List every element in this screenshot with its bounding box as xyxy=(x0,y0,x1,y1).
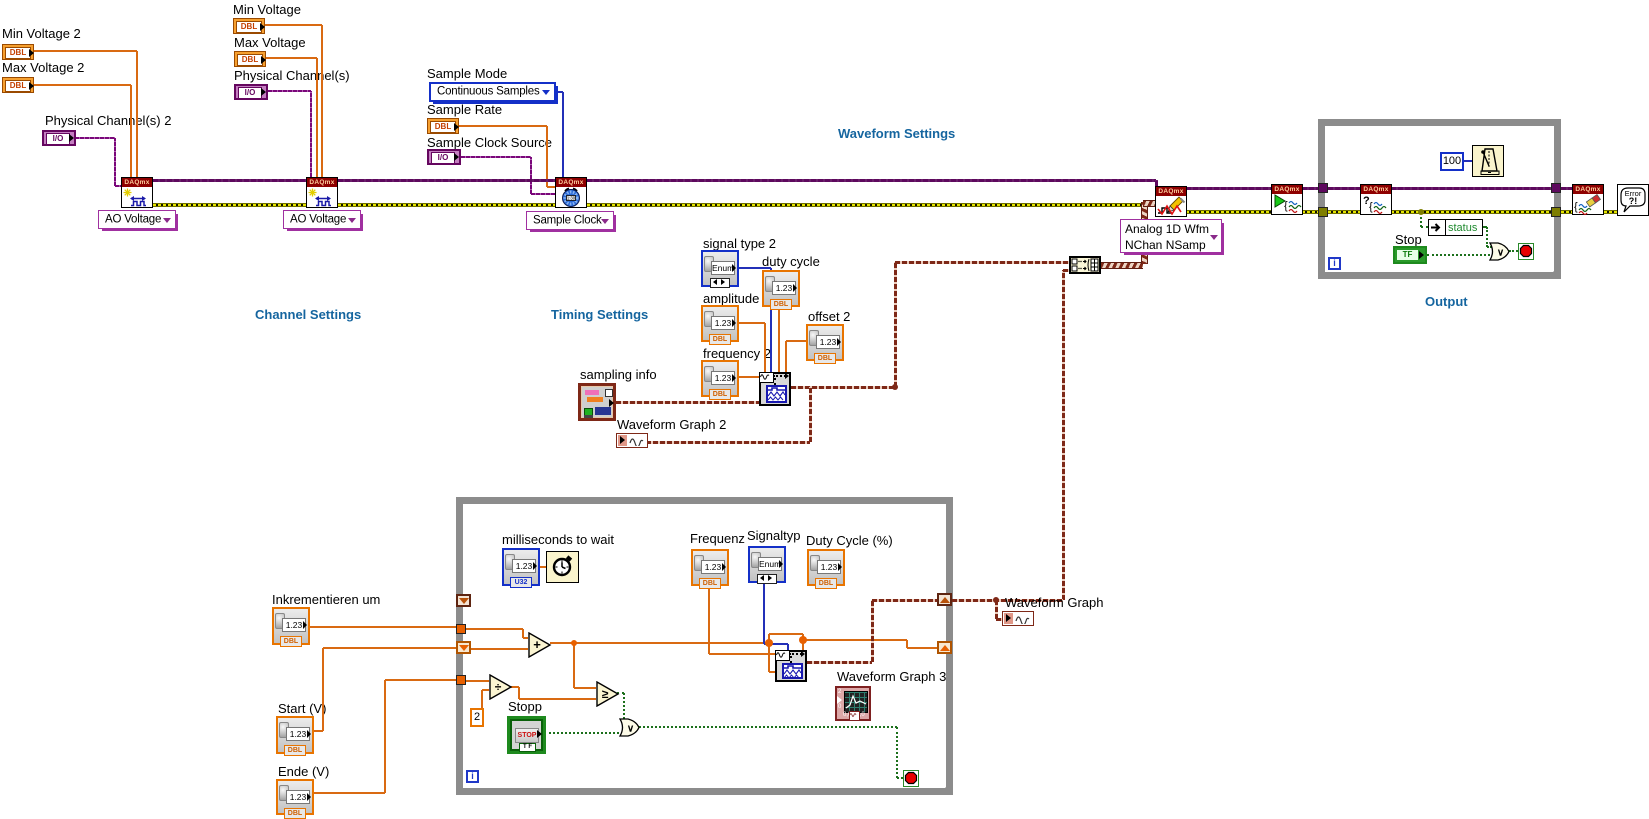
wire Sample Clock Source into node3 xyxy=(531,193,555,195)
terminal Waveform Graph 3 icon xyxy=(835,686,871,721)
wire into unbundle xyxy=(1421,226,1428,228)
wire status out xyxy=(1483,226,1487,228)
node DAQmx Write xyxy=(1155,186,1187,217)
control duty cycle xyxy=(762,270,800,307)
wire greater down to or xyxy=(623,693,625,719)
node DAQmx Is Task Done xyxy=(1360,184,1392,215)
wire error down to unbundle xyxy=(1420,212,1422,227)
wire fan down left xyxy=(768,643,770,672)
label Ende (V) xyxy=(278,764,329,779)
wire or to loop condition xyxy=(1509,250,1518,252)
label Physical Channel(s) xyxy=(234,68,350,83)
svg-text:+: + xyxy=(533,637,541,652)
node Add xyxy=(528,632,552,658)
selector AO Voltage 2 xyxy=(283,210,361,229)
wire sampling info to generator xyxy=(616,401,759,404)
wire Min Voltage 2 to node1 horizontal xyxy=(34,50,137,52)
wire tunnel to add top xyxy=(465,628,523,630)
wire duty cycle vertical xyxy=(778,306,780,372)
control Ende (V) xyxy=(276,779,314,815)
label Sample Mode xyxy=(427,66,507,81)
wire task rail inside loop right xyxy=(1391,187,1551,190)
tunnel task wire left xyxy=(1318,183,1328,193)
wire generator 1 output to build array xyxy=(895,261,1069,264)
label Start (V) xyxy=(278,701,326,716)
wire Start V to shift register xyxy=(323,647,456,649)
control Sample Mode ring Continuous Samples xyxy=(429,82,556,102)
wire divide down xyxy=(518,687,520,699)
terminal loop condition main loop xyxy=(903,770,919,787)
junction waveform at generator 1 output xyxy=(892,384,898,390)
wire or output down xyxy=(896,727,898,778)
label Stop xyxy=(1395,232,1422,247)
svg-text:≥: ≥ xyxy=(602,687,609,701)
constant 2 xyxy=(470,708,484,727)
wire Ende V out xyxy=(314,792,385,794)
wire Signaltyp into generator xyxy=(787,644,789,650)
control frequency 2 xyxy=(701,360,739,397)
wire into build array input 2 xyxy=(1063,269,1069,272)
label Physical Channel(s) 2 xyxy=(45,113,171,128)
node Basic Function Generator 1 xyxy=(759,372,791,406)
svg-text:{: { xyxy=(1284,200,1288,212)
while loop Output frame xyxy=(1318,119,1561,279)
junction add output xyxy=(571,640,577,646)
label Min Voltage 2 xyxy=(2,26,81,41)
wire task rail node1 to node2 xyxy=(153,179,306,182)
wire generator 2 to shift register xyxy=(872,599,937,602)
label Waveform Graph 3 xyxy=(837,669,946,684)
control Max Voltage DBL terminal xyxy=(234,51,266,67)
wire Signaltyp east xyxy=(764,643,788,645)
control Max Voltage 2 DBL terminal xyxy=(2,77,34,93)
wire fan up xyxy=(768,634,770,643)
wire into greater top xyxy=(574,687,596,689)
label Waveform Graph xyxy=(1005,595,1104,610)
wire Physical Channel(s) horizontal xyxy=(268,90,311,92)
wire Physical Channel(s) 2 into node1 xyxy=(115,185,121,187)
wire Sample Mode vertical xyxy=(562,92,564,177)
wire or output east xyxy=(639,726,897,728)
selector Analog 1D Wfm NChan NSamp xyxy=(1120,219,1222,253)
label Frequenz xyxy=(690,531,745,546)
wire offset 2 horizontal xyxy=(786,340,806,342)
wire Sample Mode horizontal xyxy=(556,91,563,93)
control Start (V) xyxy=(276,716,314,754)
wire generator 1 output up xyxy=(894,262,897,387)
wire Min Voltage vertical xyxy=(321,25,323,177)
label Sample Clock Source xyxy=(427,135,552,150)
section label Waveform Settings xyxy=(838,126,955,141)
node Wait ms metronome xyxy=(1472,145,1504,177)
wire 100 to wait xyxy=(1464,160,1472,162)
wire add output down to greater xyxy=(573,643,575,688)
tunnel error wire right xyxy=(1551,207,1561,217)
label offset 2 xyxy=(808,309,850,324)
wire task rail inside loop left xyxy=(1328,187,1360,190)
wire amplitude 2 horizontal xyxy=(739,322,765,324)
wire into add top xyxy=(523,637,528,639)
wire Physical Channel(s) vertical xyxy=(310,91,312,177)
wire signal type 2 horizontal xyxy=(739,267,771,269)
node Greater Or Equal xyxy=(596,681,620,707)
wire Inkrementieren um to tunnel xyxy=(310,626,456,628)
junction fan 1 xyxy=(765,639,773,647)
junction fan 2 xyxy=(799,636,807,644)
node Basic Function Generator 2 xyxy=(775,650,807,682)
wire Max Voltage horizontal xyxy=(266,57,317,59)
wire constant 2 into divide xyxy=(482,689,489,691)
wire task rail start to loop tunnel xyxy=(1302,187,1318,190)
wire Start V out xyxy=(314,730,323,732)
control amplitude 2 xyxy=(701,305,739,342)
svg-text:÷: ÷ xyxy=(495,680,502,694)
label Duty Cycle (%) xyxy=(806,533,893,548)
node Simple Error Handler xyxy=(1617,184,1649,216)
wire Ende tunnel to divide xyxy=(465,680,489,682)
wire Stop to or gate xyxy=(1427,254,1490,256)
shift register waveform left xyxy=(456,594,471,607)
label sampling info xyxy=(580,367,657,382)
terminal Waveform Graph xyxy=(1002,611,1034,626)
wire Start V up xyxy=(322,648,324,731)
wire jog to add top xyxy=(522,629,524,638)
wire signal type 2 vertical xyxy=(770,268,772,372)
wire build array output east xyxy=(1101,262,1143,269)
wire fan top east xyxy=(769,633,803,635)
node Or gate main loop xyxy=(619,718,640,737)
control Physical Channel(s) 2 I/O terminal xyxy=(42,130,76,146)
wire fan into shift register right xyxy=(907,647,937,649)
wire Ende V up xyxy=(384,680,386,793)
wire error rail node2 to node3 xyxy=(338,203,555,207)
label milliseconds to wait xyxy=(502,532,614,547)
svg-text:1:30: 1:30 xyxy=(567,196,576,201)
wire status down xyxy=(1486,227,1488,247)
control signal type 2 enum xyxy=(701,250,739,287)
svg-text:{: { xyxy=(1369,201,1373,213)
control Sample Rate DBL terminal xyxy=(427,118,459,134)
wire fan step down xyxy=(906,640,908,648)
wire into Waveform Graph terminal xyxy=(996,618,1002,621)
wire offset 2 vertical xyxy=(785,341,787,372)
wire generator 1 output east xyxy=(791,386,895,389)
node Unbundle By Name status xyxy=(1428,219,1483,236)
wire Sample Clock Source vertical xyxy=(530,157,532,194)
while loop main frame xyxy=(456,497,953,795)
wire build array output into write node xyxy=(1143,200,1155,207)
section label Channel Settings xyxy=(255,307,361,322)
wire bottom loop waveform up to build array xyxy=(1062,270,1065,600)
wire amplitude 2 vertical xyxy=(764,323,766,372)
wire Max Voltage vertical xyxy=(316,58,318,177)
svg-text:∨: ∨ xyxy=(627,724,634,735)
wire generator 1 branch down to graph 2 xyxy=(809,387,812,442)
label duty cycle xyxy=(762,254,820,269)
wire error rail inside loop left xyxy=(1328,210,1360,214)
wire fan east to tunnel xyxy=(803,639,907,641)
wire waveform out of loop xyxy=(952,599,1063,602)
wire status into or gate xyxy=(1487,246,1490,248)
wire shift register to add bottom xyxy=(470,648,528,650)
selector AO Voltage 1 xyxy=(98,210,176,229)
tunnel Ende V xyxy=(456,675,466,685)
control Duty Cycle xyxy=(807,549,845,586)
wire Max Voltage 2 to node1 horizontal xyxy=(34,84,131,86)
node DAQmx Create Virtual Channel 2 xyxy=(306,177,338,208)
wire Frequenz into generator xyxy=(709,653,775,655)
terminal Waveform Graph 2 xyxy=(616,433,648,448)
control Frequenz xyxy=(691,549,729,586)
wire error rail inside loop right xyxy=(1391,210,1551,214)
node Build Array xyxy=(1069,256,1101,274)
shift register value right xyxy=(937,641,952,654)
control Sample Clock Source I/O terminal xyxy=(427,149,461,165)
svg-text:{: { xyxy=(1574,201,1578,213)
node DAQmx Start Task xyxy=(1271,184,1303,215)
wire fan into generator left xyxy=(769,671,775,673)
wire add output east xyxy=(550,642,769,644)
control Min Voltage DBL terminal xyxy=(233,18,265,34)
shift register waveform right xyxy=(937,593,952,606)
wire generator 2 output east xyxy=(807,661,872,664)
label signal type 2 xyxy=(703,236,776,251)
node Wait ms watch icon xyxy=(546,551,579,583)
svg-text:∨: ∨ xyxy=(1497,248,1504,259)
control Signaltyp xyxy=(748,546,786,583)
terminal loop iteration main loop xyxy=(466,770,479,783)
label amplitude 2 xyxy=(703,291,770,306)
wire Min Voltage 2 to node1 vertical xyxy=(136,51,138,177)
tunnel error wire left xyxy=(1318,207,1328,217)
wire frequency 2 horizontal xyxy=(739,376,759,378)
wire to Waveform Graph 2 terminal xyxy=(646,441,810,444)
wire divide out xyxy=(511,686,519,688)
label Max Voltage xyxy=(234,35,306,50)
wire Min Voltage horizontal xyxy=(265,24,322,26)
node DAQmx Clear Task xyxy=(1572,184,1604,215)
label Sample Rate xyxy=(427,102,502,117)
wire error rail node3 to write node xyxy=(587,203,1155,207)
wire generator 2 output up xyxy=(871,600,874,662)
tunnel task wire right xyxy=(1551,183,1561,193)
constant 100 xyxy=(1440,152,1464,171)
wire fan down to generator xyxy=(802,634,804,650)
node Divide xyxy=(489,674,513,700)
section label Output xyxy=(1425,294,1468,309)
node DAQmx Timing Sample Clock xyxy=(555,177,587,208)
label Stopp xyxy=(508,699,542,714)
wire task rail node3 to write node xyxy=(587,179,1156,182)
wire Signaltyp down xyxy=(763,584,765,644)
wire error rail loop to clear xyxy=(1561,210,1572,214)
wire greater out xyxy=(617,692,624,694)
wire Max Voltage 2 to node1 vertical xyxy=(130,85,132,177)
terminal loop iteration output loop xyxy=(1328,257,1341,270)
label Waveform Graph 2 xyxy=(617,417,726,432)
wire task rail drop into write node xyxy=(1155,180,1158,186)
label Min Voltage xyxy=(233,2,301,17)
control sampling info cluster xyxy=(578,383,616,421)
wire Sample Rate horizontal xyxy=(459,125,547,127)
section label Timing Settings xyxy=(551,307,648,322)
control Min Voltage 2 DBL terminal xyxy=(2,44,34,60)
wire down to Waveform Graph terminal xyxy=(995,600,998,619)
junction waveform graph xyxy=(993,597,999,603)
wire Ende V to tunnel xyxy=(385,679,456,681)
node DAQmx Create Virtual Channel 1 xyxy=(121,177,153,208)
wire error rail write to start xyxy=(1186,210,1271,214)
junction error to status unbundle xyxy=(1418,209,1424,215)
wire Frequenz down xyxy=(708,585,710,654)
wire Stopp to or gate xyxy=(544,732,619,734)
wire or output into loop condition xyxy=(897,777,903,779)
control Stopp stop button xyxy=(507,716,546,754)
control milliseconds to wait xyxy=(502,548,540,586)
control Physical Channel(s) I/O terminal xyxy=(234,84,268,100)
wire Physical Channel(s) 2 vertical xyxy=(114,138,116,186)
control Stop boolean xyxy=(1393,246,1427,264)
wire Sample Rate vertical xyxy=(546,126,548,187)
wire error rail node1 to node2 xyxy=(153,203,306,207)
wire task rail node2 to node3 xyxy=(338,179,555,182)
wire Physical Channel(s) 2 horizontal xyxy=(75,137,115,139)
control offset 2 xyxy=(806,324,844,361)
terminal loop condition output loop xyxy=(1518,243,1534,260)
label Inkrementieren um xyxy=(272,592,380,607)
selector Sample Clock xyxy=(526,211,614,230)
tunnel Inkrementieren um xyxy=(456,624,466,634)
wire task rail write to start xyxy=(1186,187,1271,190)
wire error rail start to loop tunnel xyxy=(1302,210,1318,214)
label frequency 2 xyxy=(703,346,771,361)
node Or gate output loop xyxy=(1489,242,1510,261)
label Max Voltage 2 xyxy=(2,60,84,75)
label Signaltyp xyxy=(747,528,800,543)
wire milliseconds to wait xyxy=(540,566,546,568)
wire Sample Rate into node3 xyxy=(547,186,555,188)
wire constant 2 up xyxy=(481,690,483,708)
wire build array output up xyxy=(1141,202,1148,264)
shift register value left xyxy=(456,641,471,654)
control Inkrementieren um xyxy=(272,607,310,645)
wire divide to greater xyxy=(519,698,596,700)
wire Sample Clock Source horizontal xyxy=(461,156,531,158)
svg-text:?!: ?! xyxy=(1629,196,1638,206)
wire error rail clear to error handler xyxy=(1604,210,1617,214)
wire task rail loop to clear xyxy=(1561,187,1572,190)
